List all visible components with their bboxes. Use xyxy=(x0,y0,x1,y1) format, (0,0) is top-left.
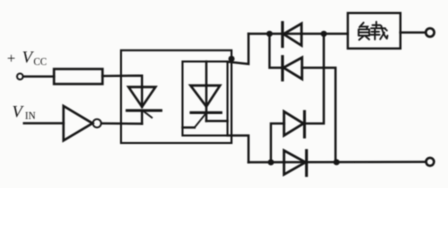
node Vin input wire xyxy=(24,122,64,124)
label 负载 (load) hand-drawn strokes xyxy=(359,22,388,40)
node dot on box right edge xyxy=(228,56,234,62)
label +Vcc xyxy=(7,48,47,69)
node output terminal top xyxy=(426,28,434,36)
resistor R xyxy=(54,69,103,84)
wire SCR anode / box top node xyxy=(228,34,249,64)
node dot bottom right xyxy=(333,159,339,165)
svg-text:+: + xyxy=(7,51,15,67)
diode D3 (pointing right) xyxy=(271,34,324,163)
diode D1 (top rail, pointing left) xyxy=(283,23,302,47)
load box xyxy=(348,13,401,49)
inverter U1 output bubble xyxy=(93,119,101,127)
负 xyxy=(359,23,363,28)
diode D4 (bottom rail, pointing right) xyxy=(284,151,307,176)
label Vin xyxy=(12,102,36,122)
wire SCR cathode out of box xyxy=(206,120,227,122)
optocoupler U2 package box xyxy=(121,50,232,143)
node dot bottom left xyxy=(268,159,274,165)
svg-text:V: V xyxy=(12,102,25,121)
wire load box to terminal xyxy=(400,31,425,33)
载 xyxy=(375,22,377,28)
LED D5 (emitter inside optocoupler) xyxy=(127,87,161,124)
wire top rail xyxy=(249,33,348,35)
node output terminal bottom xyxy=(426,158,434,166)
inverter U1 xyxy=(64,106,93,141)
wire Vcc terminal to resistor xyxy=(24,75,55,77)
node Vcc terminal xyxy=(17,74,23,80)
diode D2 (pointing left) xyxy=(270,34,336,163)
wire bottom rail xyxy=(249,161,427,164)
wire inverter output to LED cathode xyxy=(102,122,143,125)
photo-SCR Q1 xyxy=(183,62,222,128)
photo-SCR inner box xyxy=(183,62,228,136)
svg-text:CC: CC xyxy=(34,57,48,68)
svg-text:IN: IN xyxy=(25,111,36,122)
node B dot xyxy=(321,31,327,37)
node A dot xyxy=(266,31,272,37)
wire resistor to LED anode xyxy=(103,76,143,87)
